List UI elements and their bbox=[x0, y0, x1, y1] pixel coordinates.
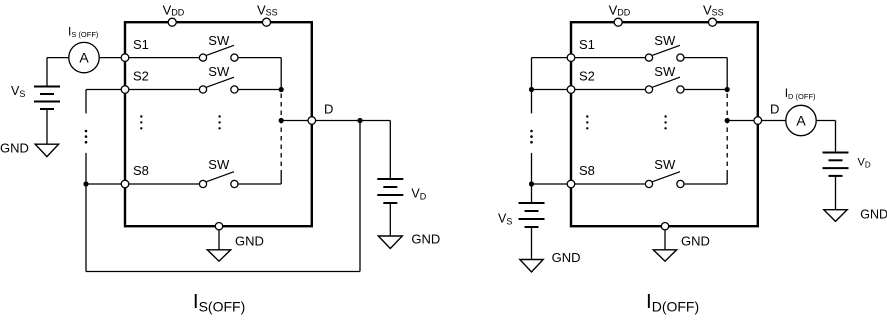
ammeter A1 bbox=[69, 42, 99, 72]
svg-text:GND: GND bbox=[411, 232, 440, 247]
VSS pin circle (2) bbox=[709, 18, 717, 26]
wire D node to VD corner bbox=[316, 120, 391, 122]
wire bus to S8 node (right ckt) bbox=[532, 183, 568, 185]
left bus resumes to S8 row bbox=[85, 153, 87, 184]
svg-text:SW: SW bbox=[208, 157, 230, 172]
svg-text:D: D bbox=[770, 102, 779, 117]
wire S2 node to switch (2) bbox=[575, 89, 646, 91]
junction D row bus (1) bbox=[279, 118, 284, 123]
svg-text:S2: S2 bbox=[133, 69, 149, 84]
svg-text:S2: S2 bbox=[579, 69, 595, 84]
node D (1) bbox=[308, 117, 316, 125]
wire bus to S8 node bbox=[86, 183, 121, 185]
wire ammeter to VS corner bbox=[47, 57, 69, 59]
wire S8 switch to bus (1) bbox=[238, 183, 281, 185]
wire S2 switch to bus (1) bbox=[238, 89, 281, 91]
switch SW S1 row (1) bbox=[199, 54, 206, 61]
wire dashed-bus lower corner (2) bbox=[726, 175, 728, 185]
ground for VS (right) bbox=[520, 260, 543, 273]
node S8 (2) bbox=[567, 180, 575, 188]
wire S2 switch to bus (2) bbox=[684, 89, 727, 91]
wire S1 node to left bus (right ckt) bbox=[532, 57, 568, 59]
battery VS (right) bbox=[519, 202, 545, 204]
node S1 (1) bbox=[121, 54, 129, 62]
node S2 (1) bbox=[121, 86, 129, 94]
bottom return wire bbox=[86, 271, 360, 273]
svg-text:S8: S8 bbox=[579, 163, 595, 178]
wire S8 switch to bus (2) bbox=[684, 183, 727, 185]
wire down to VD battery (left) bbox=[389, 121, 391, 180]
wire down to VS battery bbox=[46, 58, 48, 87]
multiplexer box U2 bbox=[571, 22, 758, 226]
ground for VD (right) bbox=[824, 210, 847, 222]
wire S1 branch down to S2 junction (2) bbox=[726, 58, 728, 90]
GND pin circle at box bottom (2) bbox=[661, 223, 668, 230]
svg-text:SW: SW bbox=[208, 64, 230, 79]
return wire up to D net bbox=[359, 121, 361, 272]
svg-text:D: D bbox=[324, 102, 333, 117]
wire S2 node to switch (1) bbox=[129, 89, 200, 91]
left bus S1 down to S2 (right ckt) bbox=[531, 58, 533, 90]
battery VD (right) bbox=[823, 152, 849, 154]
left bus down to return wire bbox=[85, 184, 87, 272]
wire VS battery to ground (right) bbox=[531, 227, 533, 260]
wire bus to D node (1) bbox=[281, 120, 308, 122]
switch SW S2 row (2) bbox=[645, 86, 652, 93]
multiplexer box U1 bbox=[125, 22, 312, 226]
bus resumes to S8 row (right ckt) bbox=[531, 153, 533, 184]
switch SW S8 row (1) bbox=[199, 180, 206, 187]
junction S2 bus (right ckt) bbox=[529, 87, 534, 92]
wire S8 node to switch (1) bbox=[129, 183, 200, 185]
switch SW S1 row (2) bbox=[645, 54, 652, 61]
svg-text:S1: S1 bbox=[579, 37, 595, 52]
switch SW S2 row (1) bbox=[199, 86, 206, 93]
svg-text:SW: SW bbox=[654, 64, 676, 79]
ground for VS (left) bbox=[35, 144, 58, 156]
ground for VD (left) bbox=[378, 236, 402, 249]
svg-text:S1: S1 bbox=[133, 37, 149, 52]
VDD pin circle (2) bbox=[614, 18, 622, 26]
junction S8 bus (left) bbox=[83, 181, 88, 186]
wire ammeter to VD corner (right) bbox=[816, 120, 835, 122]
svg-text:A: A bbox=[796, 113, 806, 129]
wire GND pin down (2) bbox=[664, 230, 666, 250]
GND pin circle at box bottom (1) bbox=[215, 223, 222, 230]
junction S2 bus (1) bbox=[279, 87, 284, 92]
continuation dots, left bus (right ckt) bbox=[530, 130, 533, 133]
junction D net / return wire bbox=[357, 118, 362, 123]
node D (2) bbox=[754, 117, 762, 125]
wire down to VD battery (right) bbox=[835, 121, 837, 153]
bus stub below S2 (right ckt) bbox=[531, 90, 533, 114]
continuation dots, switch column (1) bbox=[218, 115, 220, 117]
wire ammeter to S1 node bbox=[99, 57, 121, 59]
wire S1 node to switch (2) bbox=[575, 57, 646, 59]
svg-text:GND: GND bbox=[0, 140, 29, 155]
junction S2 bus (2) bbox=[725, 87, 730, 92]
dashed bus wire (2) bbox=[726, 94, 728, 175]
continuation dots, switch column (2) bbox=[664, 115, 666, 117]
wire VS battery to ground bbox=[46, 109, 48, 144]
svg-text:GND: GND bbox=[860, 207, 887, 221]
svg-text:GND: GND bbox=[235, 234, 264, 249]
svg-text:GND: GND bbox=[552, 250, 581, 265]
wire S8 node to switch (2) bbox=[575, 183, 646, 185]
svg-text:A: A bbox=[79, 50, 89, 66]
svg-text:GND: GND bbox=[681, 234, 710, 249]
node S1 (2) bbox=[567, 54, 575, 62]
wire GND pin down (1) bbox=[218, 230, 220, 250]
dashed bus wire (1) bbox=[280, 94, 282, 175]
wire S1 switch to bus (2) bbox=[684, 57, 727, 59]
wire S2 node to left bus bbox=[86, 89, 121, 91]
battery VD (left) bbox=[377, 178, 403, 180]
wire S1 node to switch (1) bbox=[129, 57, 200, 59]
wire dashed-bus lower corner (1) bbox=[280, 175, 282, 185]
continuation dots, left bus bbox=[85, 130, 88, 133]
svg-text:S8: S8 bbox=[133, 163, 149, 178]
node S8 (1) bbox=[121, 180, 129, 188]
svg-text:SW: SW bbox=[654, 33, 676, 48]
wire S2 node to bus (right ckt) bbox=[532, 89, 568, 91]
wire bus to D node (2) bbox=[727, 120, 754, 122]
junction D row bus (2) bbox=[725, 118, 730, 123]
wire S1 switch to bus (1) bbox=[238, 57, 281, 59]
ground below box (2) bbox=[653, 250, 676, 261]
svg-text:SW: SW bbox=[654, 157, 676, 172]
continuation dots, S-label column (2) bbox=[586, 115, 588, 117]
ground below box (1) bbox=[207, 250, 230, 261]
VSS pin circle (1) bbox=[263, 18, 271, 26]
node S2 (2) bbox=[567, 86, 575, 94]
wire bus down to VS battery (right ckt) bbox=[531, 184, 533, 203]
ammeter A2 bbox=[786, 105, 816, 135]
continuation dots, S-label column (1) bbox=[140, 115, 142, 117]
wire S1 branch down to S2 junction (1) bbox=[280, 58, 282, 90]
wire VD battery to ground (right) bbox=[835, 176, 837, 210]
switch SW S8 row (2) bbox=[645, 180, 652, 187]
left bus stub below S2 bbox=[85, 90, 87, 114]
VDD pin circle (1) bbox=[168, 18, 176, 26]
svg-text:SW: SW bbox=[208, 33, 230, 48]
junction S8 bus (right ckt) bbox=[529, 181, 534, 186]
battery VS (left) bbox=[34, 86, 60, 88]
wire VD battery to ground (left) bbox=[389, 203, 391, 236]
wire D node to ammeter (right) bbox=[762, 120, 786, 122]
